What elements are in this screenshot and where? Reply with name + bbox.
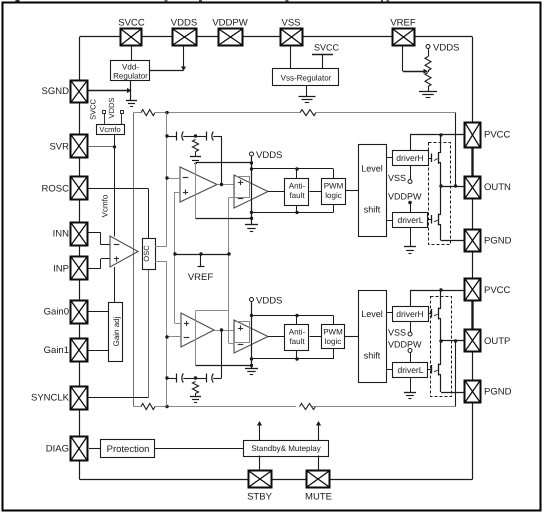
svg-text:DIAG: DIAG (46, 443, 69, 454)
svg-text:VREF: VREF (390, 18, 416, 29)
svg-text:VDDS: VDDS (107, 98, 116, 119)
svg-text:Anti-: Anti- (289, 182, 306, 191)
svg-text:OUTN: OUTN (484, 182, 511, 193)
svg-text:Vcmfo: Vcmfo (99, 125, 120, 134)
svg-text:driverL: driverL (398, 215, 424, 225)
svg-text:fault: fault (289, 191, 305, 200)
svg-text:SVCC: SVCC (314, 43, 340, 53)
svg-text:STBY: STBY (247, 492, 272, 503)
svg-text:VSS: VSS (388, 173, 406, 183)
svg-text:MUTE: MUTE (305, 492, 332, 503)
svg-text:shift: shift (364, 205, 381, 215)
svg-text:VDDPW: VDDPW (212, 18, 247, 29)
svg-text:PWM: PWM (324, 182, 344, 191)
svg-text:VDDPW: VDDPW (388, 340, 422, 350)
svg-text:VDDS: VDDS (256, 296, 282, 307)
svg-text:VREF: VREF (188, 272, 214, 283)
svg-text:driverL: driverL (398, 365, 424, 375)
svg-text:ROSC: ROSC (42, 184, 70, 195)
svg-text:fault: fault (289, 337, 305, 346)
svg-text:Anti-: Anti- (289, 328, 306, 337)
svg-text:driverH: driverH (396, 309, 423, 319)
svg-text:Standby& Muteplay: Standby& Muteplay (251, 444, 320, 453)
svg-text:VDDS: VDDS (256, 150, 282, 161)
svg-text:SVCC: SVCC (89, 99, 98, 120)
svg-text:Regulator: Regulator (113, 72, 148, 81)
svg-text:shift: shift (364, 351, 381, 361)
svg-text:PWM: PWM (323, 328, 343, 337)
svg-text:Gain1: Gain1 (44, 345, 69, 356)
svg-text:OUTP: OUTP (484, 336, 510, 347)
svg-text:VDDS: VDDS (171, 18, 197, 29)
svg-text:Vdd-: Vdd- (122, 63, 139, 72)
svg-text:INN: INN (53, 229, 70, 240)
svg-text:Gain0: Gain0 (44, 307, 69, 318)
svg-text:Vcmfo: Vcmfo (101, 194, 110, 217)
svg-text:logic: logic (325, 337, 341, 346)
svg-text:PVCC: PVCC (484, 130, 511, 141)
svg-text:SYNCLK: SYNCLK (31, 393, 70, 404)
svg-text:VSS: VSS (281, 18, 300, 29)
svg-text:PGND: PGND (484, 235, 512, 246)
svg-text:OSC: OSC (142, 245, 151, 262)
svg-text:SVR: SVR (49, 142, 69, 153)
svg-text:Level: Level (361, 309, 383, 319)
svg-text:driverH: driverH (396, 153, 423, 163)
svg-text:VDDS: VDDS (433, 43, 459, 54)
svg-text:Gain adj: Gain adj (112, 316, 121, 346)
svg-text:SVCC: SVCC (118, 18, 145, 29)
svg-text:Protection: Protection (107, 444, 150, 455)
svg-text:Level: Level (361, 164, 383, 174)
svg-text:PGND: PGND (484, 386, 512, 397)
svg-text:VSS: VSS (388, 328, 406, 338)
svg-text:SGND: SGND (42, 86, 70, 97)
svg-text:VDDPW: VDDPW (388, 192, 422, 202)
svg-text:Vss-Regulator: Vss-Regulator (281, 74, 332, 83)
svg-text:PVCC: PVCC (484, 285, 511, 296)
svg-text:logic: logic (325, 191, 341, 200)
svg-text:INP: INP (53, 264, 69, 275)
